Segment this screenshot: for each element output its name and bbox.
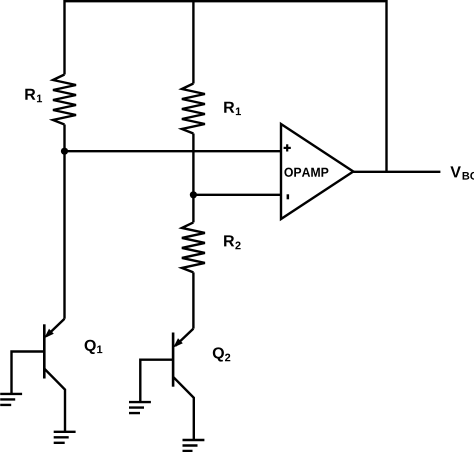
Q1 emitter arrowhead [44,329,54,338]
label VBGi output [450,166,474,179]
op-amp plus input marker [284,144,291,151]
wire: middle vertical drop from top rail [192,1,194,83]
label R2 [224,235,241,249]
Q1 collector diagonal and wire to ground [44,369,65,432]
op-amp label OPAMP [284,168,328,177]
transistor Q1 (PNP, diode-connected) [0,319,75,443]
Q1 base wire to ground [12,352,45,394]
ground (Q2 base) [129,402,151,413]
wire: op-amp output wire to VBG [353,171,440,173]
Q2 base bar [172,333,175,387]
label Q2 [213,347,230,361]
Q2 collector diagonal and wire to ground [173,377,194,440]
Q2 emitter diagonal wire [175,329,193,346]
node B: junction dot (R1 bottom / R2 / - input) [190,191,197,198]
ground (Q2 collector) [183,440,205,451]
label R1 (middle resistor) [224,102,241,115]
label Q1 [85,340,103,354]
op-amp minus input marker [287,194,290,199]
node A: junction dot (R1 bottom / Q1 / + input) [61,148,68,155]
wire: middle branch vertical from R1 bottom through node B to R2 top [192,134,194,223]
wire: inverting input wire from node B to op-amp [193,194,281,196]
ground (Q1 collector) [54,432,76,443]
wire: non-inverting input wire from node A to op-amp [65,150,282,152]
wire: middle branch vertical from R2 bottom down to Q2 emitter [192,272,194,328]
Q1 base bar [43,324,46,378]
wire: left branch vertical from R1 bottom through node A down to Q1 emitter [63,125,65,319]
transistor Q2 (PNP, diode-connected) [129,329,204,451]
ground (Q1 base) [0,394,22,405]
resistor R1 (middle) [182,84,205,134]
resistor R2 [182,222,205,272]
resistor R1 (left) [53,75,76,125]
label R1 (left resistor) [25,89,42,102]
wire: top supply rail with left and right vertical drops [65,1,387,172]
Q1 emitter diagonal wire [47,319,65,336]
Q2 base wire to ground [140,360,173,402]
op-amp U1 triangle body [281,124,353,219]
Q2 emitter arrowhead [173,338,183,347]
